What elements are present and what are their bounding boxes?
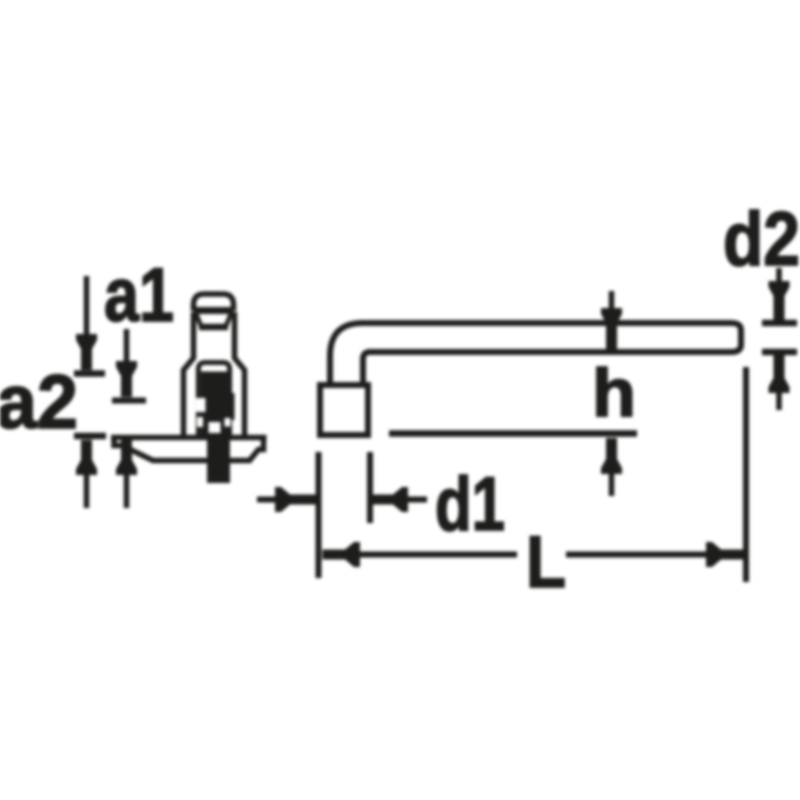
d1 arrow left xyxy=(373,487,408,512)
flange (washer) outline xyxy=(111,438,267,461)
d2 arrow down xyxy=(769,281,790,320)
svg-text:a2: a2 xyxy=(0,360,78,445)
elbow inner curve xyxy=(363,352,370,383)
a1 arrow up xyxy=(116,440,137,475)
a1 dim line lower tail xyxy=(124,468,130,508)
white notch bottom-center xyxy=(209,422,221,433)
a1 tick xyxy=(112,398,146,404)
svg-text:h: h xyxy=(592,355,636,431)
h bottom reference line xyxy=(389,430,637,437)
a1 dim line upper segment xyxy=(124,329,130,364)
svg-text:a1: a1 xyxy=(104,253,174,338)
white notch left xyxy=(196,398,206,412)
extension line head left side xyxy=(316,452,322,578)
extension line bar right end xyxy=(743,367,749,582)
L dim line right segment xyxy=(566,552,712,558)
socket head square xyxy=(320,385,368,435)
a1 arrow down xyxy=(116,361,137,397)
knob band connector right xyxy=(226,312,232,326)
knob band connector left xyxy=(196,312,202,326)
svg-text:d2: d2 xyxy=(723,197,800,282)
flange top edge xyxy=(111,435,267,441)
knob band upper xyxy=(194,307,233,314)
d1 right line xyxy=(374,497,427,503)
L arrow right xyxy=(706,542,743,567)
neck right wire xyxy=(235,312,245,437)
d2 tick top xyxy=(762,320,797,327)
L arrow left xyxy=(323,542,361,567)
d2 dim upper line xyxy=(776,268,782,320)
h arrow up xyxy=(601,438,622,474)
a2 dim line lower tail xyxy=(84,468,90,508)
a2 tick bottom xyxy=(74,433,106,440)
elbow outer curve xyxy=(330,323,363,383)
d1 left line xyxy=(257,497,310,503)
d2 tick bottom xyxy=(762,349,797,356)
knob band lower xyxy=(199,324,228,331)
d2 arrow up xyxy=(769,355,790,393)
svg-text:L: L xyxy=(526,522,566,603)
drive body black fill xyxy=(201,372,235,438)
d2 dim lower tail xyxy=(776,388,782,410)
h dim upper line xyxy=(609,291,615,350)
svg-text:d1: d1 xyxy=(435,462,505,547)
a2 arrow up xyxy=(76,440,97,475)
a2 dim line upper segment xyxy=(84,276,90,336)
a2 tick top xyxy=(74,370,105,377)
square drive stem (black) xyxy=(207,437,230,483)
socket front view: knob dome outline xyxy=(194,294,234,311)
inner socket cavity outline xyxy=(198,363,229,438)
h dim lower tail xyxy=(609,468,615,496)
L dim line left segment xyxy=(358,552,517,558)
h arrow down xyxy=(601,308,622,350)
d1 arrow right xyxy=(275,487,316,512)
neck left wire xyxy=(184,312,194,437)
handle bar outline xyxy=(362,323,741,352)
extension line head right side xyxy=(367,452,373,523)
a2 arrow down xyxy=(76,334,97,370)
white dot bottom-left xyxy=(197,417,203,427)
white dot bottom-right xyxy=(225,418,231,427)
